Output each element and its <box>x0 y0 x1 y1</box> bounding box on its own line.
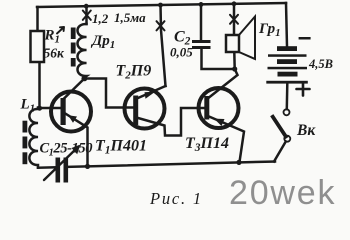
node dot rail speaker <box>232 1 237 6</box>
battery bar minus thick 3 <box>278 72 298 77</box>
svg-text:Вк: Вк <box>296 122 316 139</box>
switch Vk wire to rail <box>274 142 286 162</box>
switch Vk contact bottom <box>284 136 290 142</box>
coil L1 core dashes <box>23 121 28 165</box>
capacitor C2 plate 2 <box>192 46 211 49</box>
transistor T2 collector to T3 base <box>138 108 204 136</box>
transistor T3 emitter arrow <box>214 119 225 126</box>
svg-text:Т3П14: Т3П14 <box>185 135 229 154</box>
svg-text:Др1: Др1 <box>90 33 115 51</box>
svg-text:20wek: 20wek <box>229 174 336 212</box>
battery wire top <box>286 3 287 46</box>
wire bottom rail left <box>38 166 56 169</box>
transistor T1 emitter arrow <box>68 115 77 123</box>
svg-text:1,2: 1,2 <box>92 11 109 26</box>
capacitor C1 arrow <box>44 147 79 181</box>
wire R1 to base node <box>38 63 41 108</box>
battery plus sign <box>297 83 310 96</box>
transistor T2 emitter arrow <box>145 92 156 99</box>
transistor T3 emitter <box>209 117 244 163</box>
battery wire bottom <box>286 84 289 109</box>
ammeter break X2 <box>157 21 165 30</box>
choke Dr1 coil <box>78 24 87 79</box>
svg-text:4,5В: 4,5В <box>308 57 333 71</box>
node dot T1 collector junction <box>82 76 88 82</box>
switch Vk contact top <box>284 109 290 115</box>
svg-text:С125-150: С125-150 <box>40 141 93 159</box>
svg-text:Гр1: Гр1 <box>258 21 281 39</box>
capacitor C1 plate left <box>56 158 61 183</box>
coil L1 <box>29 108 38 168</box>
node dot T1 emitter rail <box>85 164 90 169</box>
transistor T2 circle <box>125 89 165 129</box>
battery bar plus long 3 <box>266 81 308 84</box>
svg-text:56к: 56к <box>44 46 66 61</box>
transistor T3 collector <box>209 69 238 98</box>
transistor T1 collector <box>65 78 85 98</box>
resistor R1 <box>31 31 45 62</box>
node dot rail Dr1 <box>84 4 89 9</box>
capacitor C2 wire bottom <box>202 49 235 69</box>
speaker Gr1 wire <box>233 4 236 35</box>
transistor T1 circle <box>51 92 91 132</box>
wire left rail to R1 <box>36 7 39 32</box>
capacitor C1 arrow head <box>72 145 81 155</box>
svg-text:Рис. 1: Рис. 1 <box>149 189 203 208</box>
transistor T2 emitter up <box>138 86 166 98</box>
ammeter break X1 <box>83 11 91 20</box>
svg-text:0,05: 0,05 <box>170 45 193 60</box>
switch Vk blade <box>273 117 286 137</box>
svg-text:Т2П9: Т2П9 <box>116 63 152 82</box>
battery bar plus long 1 <box>268 54 307 57</box>
wire T1 collector to T2 base jog <box>83 79 133 108</box>
R1 tick arrow <box>57 27 64 34</box>
transistor T2 base bar <box>133 96 138 126</box>
battery bar minus thick 1 <box>277 46 297 51</box>
battery minus sign <box>299 37 311 40</box>
svg-text:1,5ма: 1,5ма <box>114 10 146 25</box>
transistor T1 base bar <box>61 98 66 125</box>
node dot base junction <box>37 106 42 111</box>
speaker Gr1 wire bottom <box>233 52 236 69</box>
capacitor C2 wire top <box>200 4 203 40</box>
node dot T3 emitter rail <box>236 160 241 165</box>
capacitor C2 plate 1 <box>192 40 211 43</box>
svg-text:L1: L1 <box>20 97 36 115</box>
choke Dr1 wire top <box>85 6 88 24</box>
wire top rail <box>37 3 286 7</box>
capacitor C1 plate right <box>64 158 69 183</box>
transistor T3 circle <box>199 88 239 128</box>
speaker Gr1 cone <box>239 17 255 60</box>
transistor T1 emitter <box>65 113 88 167</box>
battery bar plus long 2 <box>268 67 308 70</box>
wire T2 emitter to top rail <box>161 5 166 86</box>
wire base L1 to T1 <box>38 107 64 110</box>
battery bar minus thick 2 <box>277 59 297 64</box>
svg-text:R1: R1 <box>44 28 61 46</box>
node dot C2 T3 junction <box>232 66 237 71</box>
speaker Gr1 box <box>226 35 239 52</box>
wire bottom rail <box>68 162 275 167</box>
node dot rail C2 <box>199 2 204 7</box>
ammeter break X3 <box>230 15 238 24</box>
node dot rail T2 <box>158 3 163 8</box>
choke Dr1 core dashes <box>71 28 76 67</box>
transistor T3 base bar <box>204 96 209 120</box>
svg-text:Т1П401: Т1П401 <box>95 138 147 157</box>
